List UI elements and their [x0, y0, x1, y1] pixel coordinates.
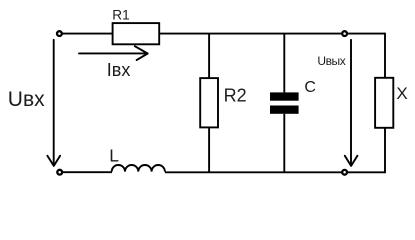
terminal node top-left	[57, 31, 62, 36]
wire bottom rail left of L	[63, 171, 113, 173]
svg-text:Uвх: Uвх	[8, 88, 45, 111]
wire C branch bottom	[283, 114, 285, 173]
wire top rail right of R1	[159, 33, 385, 35]
load X	[375, 78, 393, 128]
wire top-right corner down to X	[384, 33, 386, 78]
resistor R2	[200, 78, 218, 127]
svg-text:R1: R1	[112, 8, 129, 23]
voltage arrow Uвых	[345, 40, 358, 166]
capacitor C top plate	[270, 92, 299, 100]
svg-text:L: L	[109, 146, 119, 166]
current arrow Iвх	[79, 46, 148, 60]
terminal node top-right	[342, 31, 347, 36]
svg-text:X: X	[396, 84, 407, 103]
voltage arrow Uвх	[47, 40, 60, 166]
wire R2 branch top	[208, 34, 210, 79]
svg-text:R2: R2	[224, 85, 247, 105]
capacitor C bottom plate	[270, 106, 299, 114]
inductor L	[112, 165, 165, 172]
wire X bottom	[384, 128, 386, 173]
terminal node bottom-right	[342, 170, 347, 175]
wire C branch top	[283, 34, 285, 93]
svg-text:Iвх: Iвх	[107, 60, 131, 80]
svg-text:Uвых: Uвых	[317, 54, 345, 68]
resistor R1	[113, 23, 160, 44]
wire bottom rail right of L	[165, 171, 385, 173]
terminal node bottom-left	[57, 170, 62, 175]
wire top rail left of R1	[62, 33, 112, 35]
wire R2 branch bottom	[208, 127, 210, 172]
svg-text:C: C	[304, 79, 316, 96]
